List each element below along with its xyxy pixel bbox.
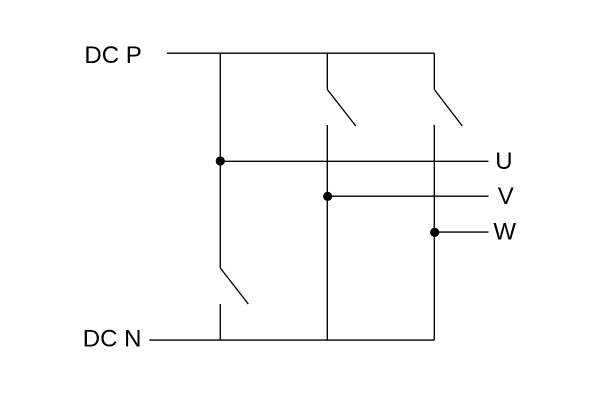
junction node W xyxy=(430,228,439,237)
switch S1 blade (open switch, leg 1) xyxy=(220,268,248,304)
svg-text:U: U xyxy=(495,148,512,175)
switch S2 blade (open switch, leg 2) xyxy=(327,90,356,127)
wire DC P bus (top horizontal) xyxy=(167,52,434,54)
wire leg 2 lower (switch S2 bottom contact through node V to DC N) xyxy=(326,125,328,340)
wire leg 3 lower (switch S3 bottom contact through node W to DC N) xyxy=(433,125,435,340)
switch S3 blade (open switch, leg 3) xyxy=(434,90,462,127)
wire leg 2 upper (phase V leg, from DC P to switch S2) xyxy=(326,53,328,89)
junction node V xyxy=(323,192,332,201)
wire output W (node W to terminal W) xyxy=(434,231,488,233)
svg-text:V: V xyxy=(498,183,514,210)
wire output V (node V to terminal V) xyxy=(327,195,488,197)
wire leg 3 upper (phase W leg, from DC P to switch S3) xyxy=(433,53,435,89)
svg-text:W: W xyxy=(493,218,516,245)
svg-text:DC P: DC P xyxy=(84,42,141,69)
wire leg 1 lower (switch S1 bottom contact to DC N) xyxy=(219,304,221,340)
wire DC N bus (bottom horizontal) xyxy=(149,339,434,341)
junction node U xyxy=(216,156,225,165)
wire leg 1 upper (phase U leg, from DC P through node U to switch S1) xyxy=(219,53,221,268)
wire output U (node U to terminal U) xyxy=(220,160,488,162)
svg-text:DC N: DC N xyxy=(83,325,142,352)
